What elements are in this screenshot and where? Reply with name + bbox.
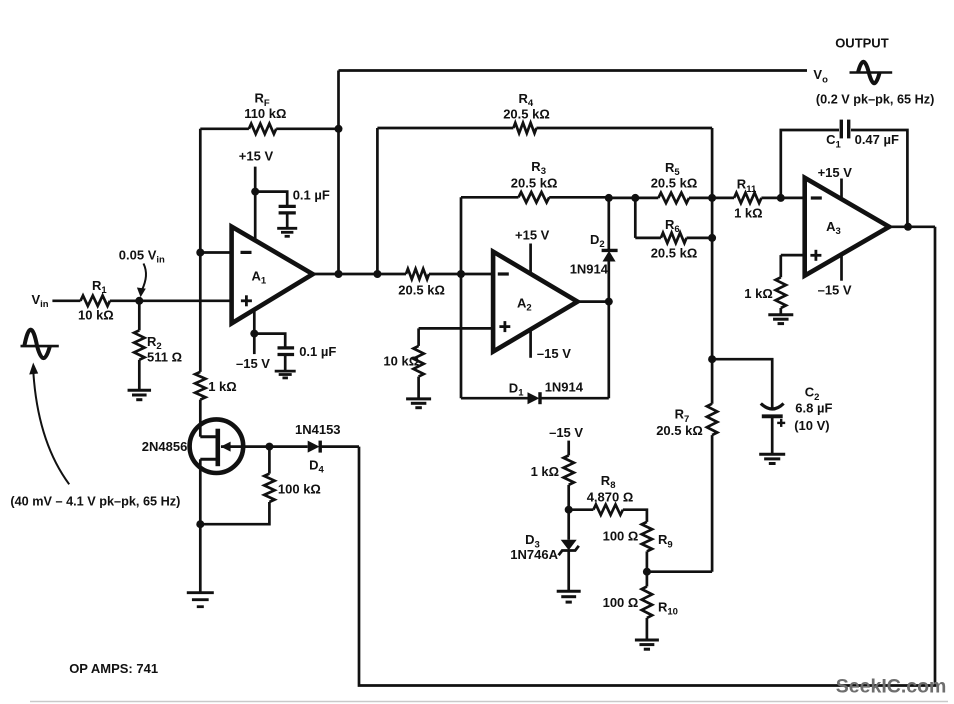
wire top output bus xyxy=(339,69,808,72)
svg-text:100 Ω: 100 Ω xyxy=(603,595,639,610)
node R9/R10 junction xyxy=(643,568,651,576)
node A2 output xyxy=(605,298,613,306)
svg-text:1N914: 1N914 xyxy=(545,379,584,394)
svg-text:(0.2 V pk–pk, 65 Hz): (0.2 V pk–pk, 65 Hz) xyxy=(816,93,934,107)
power +15 V stub (A1) xyxy=(239,149,274,241)
resistor R2 511 &#937; xyxy=(134,301,182,390)
resistor R11 1 k&#937; xyxy=(734,177,781,221)
node R11 / C1 / A3 junction xyxy=(777,194,785,202)
arrow to input amplitude label xyxy=(29,363,69,485)
svg-text:1 kΩ: 1 kΩ xyxy=(208,379,237,394)
resistor R5 20.5 k&#937; xyxy=(635,160,712,203)
diode D1 1N914 xyxy=(461,379,609,404)
capacitor 0.1 uF (A1 +15V bypass) xyxy=(255,188,330,228)
wire R3 junction to R5 xyxy=(609,197,636,200)
wire A1 output riser to top bus xyxy=(337,71,340,275)
svg-text:20.5 kΩ: 20.5 kΩ xyxy=(398,283,445,298)
diode D2 1N914 xyxy=(570,198,618,302)
op-amp A2 xyxy=(493,252,577,352)
ground (A1 +15V bypass) xyxy=(277,228,297,236)
svg-text:1N914: 1N914 xyxy=(570,262,609,277)
svg-text:110 kΩ: 110 kΩ xyxy=(244,106,286,121)
wire A3 output xyxy=(889,225,935,228)
power +15 V stub (A3) xyxy=(818,165,853,199)
resistor R7 20.5 k&#937; xyxy=(656,404,717,572)
resistor 10 k&#937; (A2 +) xyxy=(383,328,423,398)
label 0.05 Vin with arrow xyxy=(119,247,165,297)
wire R3 left riser xyxy=(460,197,463,274)
svg-text:10 kΩ: 10 kΩ xyxy=(383,353,419,368)
wire A2 inverting input xyxy=(461,273,493,276)
svg-text:511 Ω: 511 Ω xyxy=(147,350,182,365)
wire output feedback loop xyxy=(359,227,935,686)
svg-text:20.5 kΩ: 20.5 kΩ xyxy=(656,423,703,438)
wire R6 left riser xyxy=(634,198,637,238)
svg-text:20.5 kΩ: 20.5 kΩ xyxy=(651,245,698,260)
ground (D3) xyxy=(557,591,581,602)
power +15 V stub (A2) xyxy=(515,227,550,273)
ground (C2) xyxy=(759,454,785,463)
resistor RF 110 k&#937; xyxy=(200,91,338,134)
power -15 V stub (A1) xyxy=(236,310,270,371)
resistor R6 20.5 k&#937; xyxy=(635,217,712,260)
wire R4 left riser xyxy=(376,128,379,274)
transistor Q1 2N4856 (JFET) xyxy=(142,419,270,524)
resistor R3 20.5 k&#937; xyxy=(461,159,609,203)
capacitor C2 6.8 uF (10 V) xyxy=(712,359,832,454)
diode D3 zener 1N746A xyxy=(510,510,579,591)
svg-text:SeekIC.com: SeekIC.com xyxy=(836,676,947,698)
svg-text:0.1 µF: 0.1 µF xyxy=(299,344,336,359)
svg-text:1 kΩ: 1 kΩ xyxy=(744,286,773,301)
svg-text:100 kΩ: 100 kΩ xyxy=(278,482,321,497)
op-amp A3 xyxy=(805,178,890,276)
svg-text:10 kΩ: 10 kΩ xyxy=(78,307,114,322)
resistor R10 100 &#937; xyxy=(603,572,678,640)
node A2 inverting input xyxy=(457,270,465,278)
wire D1 left riser xyxy=(460,274,463,398)
svg-text:1 kΩ: 1 kΩ xyxy=(734,206,763,221)
scan artifact bottom line xyxy=(30,701,948,703)
node RF feedback junction xyxy=(335,125,343,133)
ground (A2 + input) xyxy=(406,399,431,408)
ground (R10) xyxy=(635,640,659,649)
resistor R1 10 k&#937; xyxy=(78,278,139,323)
wire R5/R6 junction column xyxy=(711,238,714,404)
svg-text:1N746A: 1N746A xyxy=(510,547,558,562)
svg-text:20.5 kΩ: 20.5 kΩ xyxy=(651,175,698,190)
input sine symbol xyxy=(21,330,59,359)
wire to A1 non-inverting input xyxy=(139,299,231,302)
ground (A3 + input) xyxy=(768,315,793,324)
watermark SeekIC.com xyxy=(836,676,947,698)
resistor 1 k&#937; (bias) xyxy=(531,455,574,509)
label output amplitude xyxy=(816,93,934,107)
output sine symbol xyxy=(850,62,893,84)
svg-text:(40 mV – 4.1 V pk–pk, 65 Hz): (40 mV – 4.1 V pk–pk, 65 Hz) xyxy=(10,494,180,508)
resistor R8 4,870 &#937; xyxy=(569,473,647,522)
node bias junction xyxy=(565,506,573,514)
wire A2 output xyxy=(578,300,609,303)
wire to R11 xyxy=(712,197,734,200)
svg-text:OUTPUT: OUTPUT xyxy=(835,36,889,51)
svg-text:0.1 µF: 0.1 µF xyxy=(293,188,330,203)
ground (R2) xyxy=(128,390,152,399)
resistor 100 k&#937; (gate) xyxy=(200,447,321,525)
label input amplitude xyxy=(10,494,180,508)
node input divider (0.05 Vin) xyxy=(135,297,143,305)
wire R4 right riser xyxy=(711,128,714,198)
label Vin xyxy=(32,292,49,310)
wire JFET source to ground xyxy=(199,524,202,592)
resistor 1 k&#937; (A3 +) xyxy=(744,255,786,314)
wire A1 inverting input xyxy=(200,251,231,254)
node JFET source / 100k return xyxy=(196,520,204,528)
wire input xyxy=(52,299,80,302)
node R5 right junction xyxy=(708,194,716,202)
resistor 20.5 k&#937; (A1 to A2) xyxy=(398,269,461,298)
node R6 right junction xyxy=(708,234,716,242)
node C2 branch xyxy=(708,355,716,363)
svg-text:20.5 kΩ: 20.5 kΩ xyxy=(503,106,550,121)
node R5/R6 left junction xyxy=(631,194,639,202)
svg-text:+15 V: +15 V xyxy=(515,227,550,242)
svg-text:0.47 µF: 0.47 µF xyxy=(855,132,899,147)
node A1 output / top-bus junction xyxy=(335,270,343,278)
svg-text:–15 V: –15 V xyxy=(236,356,270,371)
svg-text:(10 V): (10 V) xyxy=(794,418,829,433)
op-amp A1 xyxy=(232,227,313,324)
capacitor 0.1 uF (A1 -15V bypass) xyxy=(254,334,336,371)
svg-text:OP AMPS: 741: OP AMPS: 741 xyxy=(69,661,158,676)
wire A3 non-inverting input xyxy=(781,254,805,257)
node A1 +15V bypass tap xyxy=(251,188,259,196)
label Vo xyxy=(813,67,828,85)
svg-text:–15 V: –15 V xyxy=(549,425,583,440)
svg-text:1 kΩ: 1 kΩ xyxy=(531,464,560,479)
svg-text:–15 V: –15 V xyxy=(818,282,852,297)
node A1 inverting input xyxy=(196,249,204,257)
label OUTPUT xyxy=(835,36,889,51)
capacitor C1 0.47 uF xyxy=(781,120,908,227)
ground (JFET source) xyxy=(187,593,214,607)
wire A2 non-inverting input xyxy=(419,327,494,330)
resistor 1 k&#937; (JFET drain) xyxy=(195,372,237,437)
resistor R4 20.5 k&#937; xyxy=(377,91,712,133)
svg-text:20.5 kΩ: 20.5 kΩ xyxy=(511,176,558,191)
power -15 V (bias) xyxy=(549,425,583,456)
power -15 V stub (A2) xyxy=(531,329,572,361)
svg-text:1N4153: 1N4153 xyxy=(295,422,341,437)
svg-text:6.8 µF: 6.8 µF xyxy=(795,400,832,415)
diode D4 1N4153 xyxy=(269,422,359,476)
node R3 / D2 / R5 junction xyxy=(605,194,613,202)
node A1 output / R4 branch xyxy=(373,270,381,278)
svg-text:–15 V: –15 V xyxy=(537,346,571,361)
ground (A1 -15V bypass) xyxy=(275,371,296,378)
wire D1 right riser xyxy=(607,302,610,399)
wire A3 inverting input xyxy=(781,197,805,200)
wire R5 to R6 column xyxy=(711,198,714,238)
svg-text:100 Ω: 100 Ω xyxy=(603,528,639,543)
wire inverting-input column xyxy=(199,129,202,372)
svg-text:2N4856: 2N4856 xyxy=(142,439,188,454)
svg-text:4,870 Ω: 4,870 Ω xyxy=(587,490,634,505)
node JFET gate junction xyxy=(265,443,273,451)
svg-text:+15 V: +15 V xyxy=(239,149,274,164)
node A1 -15V bypass tap xyxy=(250,330,258,338)
resistor R9 100 &#937; xyxy=(603,522,673,572)
wire A1 output xyxy=(313,273,406,276)
svg-text:+15 V: +15 V xyxy=(818,165,853,180)
power -15 V stub (A3) xyxy=(818,254,852,297)
node A3 output xyxy=(904,223,912,231)
label OP AMPS: 741 xyxy=(69,661,158,676)
wire junction to R7 xyxy=(647,570,712,573)
